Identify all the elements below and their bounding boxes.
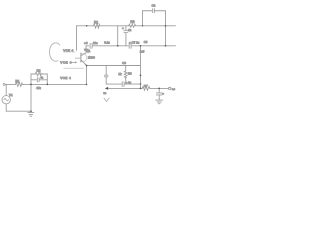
wire shunt cap drop [158, 88, 160, 92]
transistor Q1 body circle [81, 53, 86, 61]
svg-text:R7: R7 [144, 84, 148, 88]
node input R1 junction [30, 84, 32, 86]
wire v4 [165, 26, 167, 46]
box3 right edge [46, 74, 48, 84]
svg-text:VCE 4: VCE 4 [60, 76, 71, 80]
svg-text:1k: 1k [118, 72, 122, 76]
node rail2 v4 [165, 45, 167, 47]
svg-text:R2: R2 [94, 20, 98, 24]
svg-text:R1: R1 [15, 79, 19, 83]
node main wire end [86, 84, 88, 86]
svg-text:+C: +C [84, 41, 88, 45]
wire v6 emitter down [86, 66, 88, 85]
transistor Q1 emitter arrow [85, 63, 86, 65]
node rail1 v4 [165, 25, 167, 27]
junction dots [30, 25, 166, 112]
node v5 box bottom [140, 83, 142, 85]
capacitor C10 in rail2 [90, 43, 92, 48]
resistor R2 [93, 24, 99, 28]
wire rail2 [86, 45, 176, 47]
svg-text:10u: 10u [93, 41, 98, 45]
capacitor C7 in rail2 [129, 43, 131, 48]
svg-text:C2: C2 [152, 4, 156, 8]
resistor R4 [35, 72, 41, 76]
main input wire [5, 83, 86, 85]
svg-text:+: + [162, 92, 164, 96]
box3 left edge [30, 74, 32, 84]
svg-text:ac: ac [172, 87, 176, 91]
wire emitter node to box2 top edge [87, 65, 141, 67]
capacitor C11 shunt plates [156, 93, 162, 95]
svg-text:vo: vo [103, 91, 106, 95]
node box1 left [142, 25, 143, 26]
chevron mark [104, 98, 109, 102]
node emitter [86, 65, 88, 67]
output terminal [169, 87, 171, 89]
output wire [108, 87, 168, 89]
svg-text:C9: C9 [144, 40, 148, 44]
output arrow [105, 87, 108, 90]
svg-text:VCE 4: VCE 4 [63, 48, 73, 52]
box3 middle branch capacitor C3 [31, 78, 47, 82]
source V1 circle [2, 96, 10, 104]
svg-text:C8: C8 [122, 61, 126, 65]
resistor R7 [142, 87, 150, 91]
wire v2 [117, 26, 119, 46]
transistor Q1 base bar [80, 53, 82, 62]
node rail2 v5 [140, 45, 142, 47]
wire v7 down to ground rail [30, 84, 32, 111]
svg-text:2N39: 2N39 [88, 56, 95, 60]
svg-text:+ C7 2u: + C7 2u [129, 40, 140, 44]
resistor R9 vertical middle branch [124, 71, 127, 78]
node ground rail [30, 110, 32, 112]
svg-text:0.1u: 0.1u [104, 41, 110, 45]
source V1 sine [4, 99, 9, 101]
annotation arrow mid [72, 62, 77, 63]
svg-text:1u: 1u [128, 28, 131, 32]
wire rail1 top [77, 25, 176, 27]
ground symbol output [156, 100, 163, 104]
node rail2 v2 [117, 45, 119, 47]
svg-text:VCE 4: VCE 4 [60, 61, 71, 65]
capacitor plates in left edge [104, 75, 108, 77]
svg-text:+ 4u: + 4u [126, 81, 132, 85]
transistor Q1 base stub [75, 57, 81, 59]
node v5 output [140, 88, 142, 90]
node v5 tap [140, 75, 142, 77]
wire v5 [140, 46, 142, 89]
svg-text:4u: 4u [40, 76, 43, 80]
box2 bottom edge with capacitor [106, 83, 140, 85]
box2 middle branch lead [125, 66, 127, 85]
annotation underline [63, 51, 75, 53]
annotation arrow lower [64, 67, 84, 69]
svg-text:+: + [122, 26, 124, 30]
resistor R1 [16, 83, 23, 87]
svg-text:V1: V1 [9, 93, 13, 97]
wire shunt to ground [158, 95, 160, 100]
input terminal [3, 83, 5, 85]
capacitor C5 vertical polarized [124, 26, 128, 46]
box2 left edge with capacitor [105, 66, 107, 85]
wire V1 bottom stub [5, 104, 7, 111]
capacitor C2 in box1 top edge [153, 9, 155, 13]
transistor Q1 emitter wire [81, 60, 86, 65]
ground symbol input [28, 111, 34, 116]
resistor R6 [129, 24, 136, 27]
svg-text:R9: R9 [128, 72, 132, 76]
svg-text:R6: R6 [130, 20, 134, 24]
svg-text:2u5: 2u5 [140, 50, 145, 54]
wire V1 top stub [5, 84, 7, 95]
wire v1 (rail1 down-left stub) [76, 26, 78, 50]
node rail1 mid [86, 25, 88, 27]
svg-text:Q1: Q1 [86, 49, 90, 53]
node box3 right [46, 84, 48, 86]
annotation arc [49, 43, 59, 61]
box1 feedback loop top right [143, 11, 166, 26]
transistor Q1 collector wire [81, 46, 86, 56]
box3 top edge with resistor R4 [31, 73, 47, 75]
svg-text:47u: 47u [36, 86, 41, 90]
node shunt [158, 88, 160, 90]
svg-text:R4: R4 [37, 68, 41, 72]
ground rail bottom left [6, 110, 31, 112]
capacitor plates in bottom edge [122, 82, 124, 87]
